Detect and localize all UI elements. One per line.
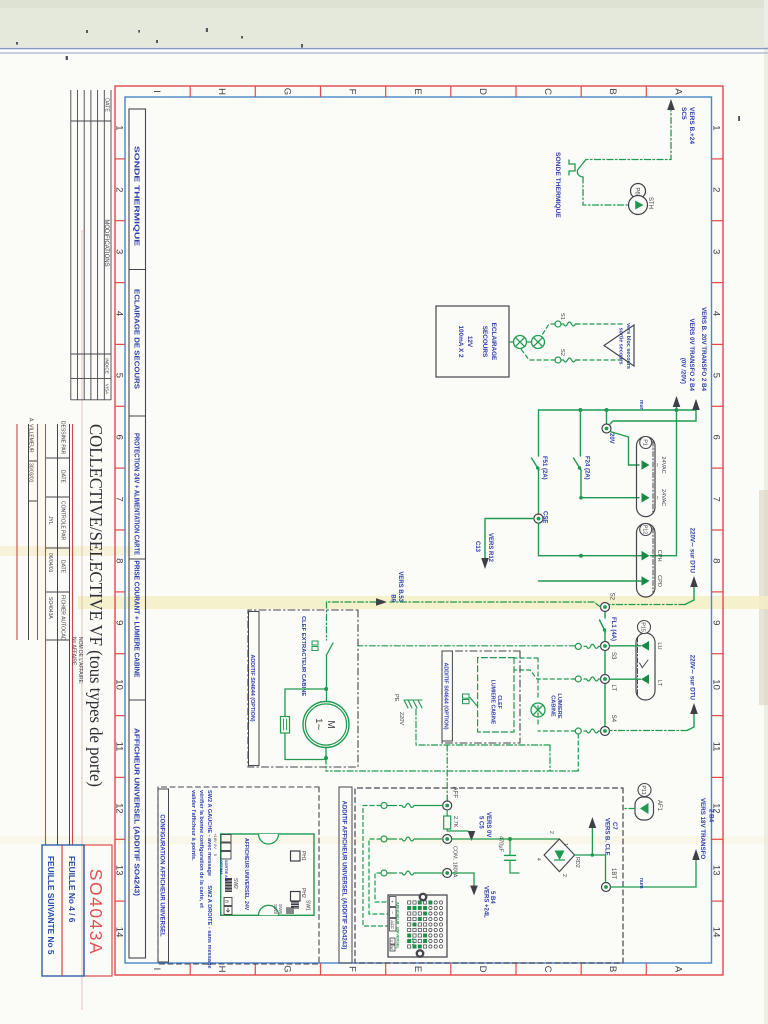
svg-text:OPTIMA: OPTIMA [219,860,223,875]
svg-text:SORTIE AFI: SORTIE AFI [224,860,228,881]
svg-text:∼: ∼ [654,463,660,468]
svg-text:2: 2 [114,187,125,192]
wire 20V tap [606,410,608,424]
svg-text:14: 14 [711,927,722,938]
svg-text:14: 14 [114,927,125,938]
svg-text:13: 13 [114,865,125,876]
svg-text:S2: S2 [559,349,565,356]
svg-text:E: E [412,966,423,972]
svg-text:CLEF: CLEF [496,695,502,709]
svg-text:1: 1 [711,125,722,130]
svg-text:CABINE: CABINE [550,695,556,717]
svg-text:12: 12 [114,803,125,814]
svg-text:11: 11 [114,742,125,752]
svg-text:2.7K: 2.7K [452,816,458,828]
resistor 2.7K [446,810,448,816]
svg-text:VERS B.53: VERS B.53 [397,571,403,602]
sheet number box [42,845,84,976]
terminal LT [601,675,610,684]
svg-text:PH2: PH2 [300,888,306,898]
pin 24VAC 2 [642,493,650,503]
lamp L2 [532,336,545,349]
PE symbol 220V [404,700,422,708]
svg-text:3: 3 [711,249,722,254]
svg-text:24 V: 24 V [411,938,416,946]
run 2 terminal COM [443,835,452,844]
dash S4 circle to PE riser [577,734,579,771]
wire F24 branch [579,410,581,456]
svg-text:PROTECTION 24V + ALIMENTATION: PROTECTION 24V + ALIMENTATION CARTE [132,433,139,555]
svg-text:11: 11 [711,742,722,752]
pin LT [641,674,649,684]
SW6 SW3 [286,908,294,915]
svg-text:470µF: 470µF [498,836,504,853]
terminal row wire [604,612,606,727]
svg-text:AFF: AFF [452,787,458,799]
svg-text:12V: 12V [466,336,473,348]
pin CPH [642,551,650,561]
arrow VERS B.53 [376,598,387,606]
svg-text:VERS 0V TRANSFO 2 B4: VERS 0V TRANSFO 2 B4 [688,318,695,391]
svg-text:COLLECTIVE/SELECTIVE VF (tous: COLLECTIVE/SELECTIVE VF (tous types de p… [86,424,106,787]
wire to motor [326,655,328,701]
svg-text:vérifier la bonne configuratio: vérifier la bonne configuration de la ca… [198,790,204,908]
connector pill P1 [637,437,656,517]
svg-text:SW3: SW3 [273,904,278,914]
arrow VERS B.20V TRANSFO [692,399,700,410]
terminal 1BT [602,883,611,892]
zone letters A-I right strip [151,965,683,973]
svg-text:−: − [389,911,394,914]
svg-text:220V∼ sur DTU: 220V∼ sur DTU [689,655,696,701]
svg-text:ADDITIF S04644 (OPTION): ADDITIF S04644 (OPTION) [249,654,255,721]
long wire to CPH [539,410,677,556]
run 1 terminal AFF [443,801,452,810]
arrow 220V sur DTU [690,576,698,587]
svg-text:24VAC: 24VAC [660,489,666,506]
dash-dot S2 up to 220V DTU [610,604,686,606]
svg-text:10: 10 [711,679,722,690]
wire 220V sur DTU to S4 [687,714,694,731]
sensor circle P6 [631,184,646,199]
svg-text:S4: S4 [610,715,616,723]
svg-text:1: 1 [114,125,125,130]
svg-text:G: G [281,88,292,95]
svg-text:DATE: DATE [60,560,66,574]
svg-text:(0V /20V): (0V /20V) [680,358,687,384]
svg-text:6: 6 [711,435,722,440]
svg-text:A: A [672,966,683,973]
configuration afficheur universel box [158,787,319,964]
riser S4 to 220V DTU (dash-dot) [610,730,688,732]
svg-text:VERS B. 20V TRANSFO 2 B4: VERS B. 20V TRANSFO 2 B4 [700,307,707,391]
wiggle and circle under LT [584,677,601,681]
svg-text:C: C [542,88,553,95]
svg-text:DATE: DATE [103,98,109,112]
svg-text:C7: C7 [611,822,617,830]
svg-text:vers bloc secours: vers bloc secours [625,323,631,369]
svg-text:SW6: SW6 [278,904,283,914]
svg-text:PE: PE [393,694,399,702]
svg-text:B: B [225,900,230,903]
svg-text:C13: C13 [474,541,480,553]
svg-text:E: E [412,88,423,94]
board notches [259,834,279,844]
capacitor 470uF [510,839,519,873]
svg-text:6: 6 [114,435,125,440]
function section strip along bottom inside frame [129,109,146,958]
svg-text:SC5: SC5 [680,107,687,120]
arrow 220V sur DTU 2 [690,703,698,714]
svg-text:24V: 24V [243,901,249,911]
run 2 riser to rectifier [452,838,559,840]
svg-text:No AFFAIRE:: No AFFAIRE: [71,637,77,667]
capacitor C [281,717,290,734]
instruction text [190,790,212,969]
wiggle and circle under S3 [584,644,601,648]
svg-text:VERS 18V TRANSFO: VERS 18V TRANSFO [699,798,706,859]
svg-text:AF1: AF1 [656,800,662,812]
svg-text:AFFICHEUR UNIVERSEL (ADDITIF S: AFFICHEUR UNIVERSEL (ADDITIF SO4243) [132,728,139,896]
svg-text:VERS B.+24: VERS B.+24 [688,107,695,144]
wire F51 / CSE branch [538,410,540,456]
sortie connector boxes [221,835,231,860]
riser S3 to LU [610,645,641,647]
riser diamond to VERS B. CLE [575,819,606,883]
svg-text:5: 5 [711,373,722,378]
svg-text:9: 9 [711,620,722,625]
svg-text:D: D [477,88,488,95]
svg-text:VERS R12: VERS R12 [487,533,493,563]
svg-text:3: 3 [114,249,125,254]
svg-text:LUMIERE CABINE: LUMIERE CABINE [490,680,496,725]
wire VERS B.+24 (dash-dot) [586,105,671,160]
label vers bloc secours [618,323,632,369]
svg-text:RD2: RD2 [574,857,580,868]
thermal contact STH switch [569,160,586,178]
bloc secours box [436,306,509,377]
svg-text:S1: S1 [559,313,565,320]
svg-text:7: 7 [114,496,125,501]
dash-dot wire into box to AFF [446,745,448,796]
svg-text:LUMIERE: LUMIERE [556,693,562,718]
svg-text:num: num [638,878,644,889]
svg-text:W: W [390,946,394,950]
svg-text:SECOURS: SECOURS [481,326,488,358]
fuse wiggle S1 [561,322,578,326]
svg-text:M: M [325,720,336,728]
riser LT to pin LT [610,678,641,680]
svg-text:5 B4: 5 B4 [489,891,495,904]
wire F24 to pin [581,470,639,498]
dashes from lamps to box [509,341,532,343]
svg-text:220V: 220V [398,712,404,725]
svg-text:SONDE THERMIQUE: SONDE THERMIQUE [554,152,561,218]
svg-text:FEUILLE SUIVANTE No 5: FEUILLE SUIVANTE No 5 [46,856,56,955]
wires terminals to triangle [576,324,625,360]
lamp L1 [514,336,545,349]
svg-text:5: 5 [114,373,125,378]
B box and arrow box [224,898,232,906]
svg-text:mur: mur [638,400,644,410]
svg-text:SW2 A GAUCHE - avec message: SW2 A GAUCHE - avec message SW2 A DROITE… [206,790,212,969]
svg-text:10: 10 [114,679,125,690]
svg-text:+: + [389,900,394,903]
zone numbers 1-14 bottom strip [114,125,125,937]
svg-text:VERS 0V: VERS 0V [485,812,491,837]
svg-text:06/04/01: 06/04/01 [47,553,53,573]
fuse wiggle S2 [561,358,578,362]
svg-text:ECLAIRAGE: ECLAIRAGE [490,323,497,361]
svg-text:VERS +24L: VERS +24L [483,886,489,918]
svg-text:H: H [216,88,227,95]
document number cell SO4043A [84,845,112,976]
svg-text:30/03/01: 30/03/01 [28,463,34,483]
wire to arrow 0V transfo [676,398,678,410]
svg-text:4: 4 [535,858,541,861]
svg-text:2: 2 [561,874,567,877]
faint red paper-edge line along bottom margin [81,230,83,1010]
wire to arrow 20V transfo [610,401,696,424]
zone numbers 1-14 top strip [711,125,722,937]
svg-text:ADDITIF S04644 (OPTION): ADDITIF S04644 (OPTION) [443,662,449,729]
sensor circle STH with triangle [629,196,648,215]
svg-text:FICHIER AUTOCAD: FICHIER AUTOCAD [60,595,66,641]
revision table [71,90,111,400]
svg-text:FL1 (4A): FL1 (4A) [610,617,616,641]
svg-text:220V∼ sur DTU: 220V∼ sur DTU [689,528,696,574]
connector P11 / AF1 [638,784,651,797]
svg-text:8: 8 [114,558,125,563]
arrow VERS 0V TRANSFO [673,396,681,407]
pin matrix connector afficheur [388,895,447,957]
svg-text:FEUILLE No 4 / 6: FEUILLE No 4 / 6 [67,856,77,923]
PH2 + SW1 [291,892,301,902]
svg-text:SONDE THERMIQUE: SONDE THERMIQUE [132,146,139,247]
terminal S2 [555,357,561,363]
wire motor right [325,748,327,759]
arrow VERS B. CLE [589,817,597,828]
wire CPD down [539,580,642,582]
svg-text:CPD: CPD [656,575,662,587]
pin CPD [642,576,650,586]
option box additif S04644 [442,651,520,743]
svg-text:S2: S2 [609,593,615,601]
AFI board outline [221,834,314,915]
pin LU [641,641,649,651]
svg-text:LU: LU [656,642,662,649]
svg-text:P15: P15 [640,622,646,632]
svg-text:DESSINE PAR: DESSINE PAR [60,421,66,455]
svg-text:SW1: SW1 [305,900,311,911]
svg-text:P11: P11 [640,785,646,794]
svg-text:LT: LT [656,680,662,687]
svg-text:P12: P12 [641,525,647,535]
svg-text:SO4043A: SO4043A [47,597,53,619]
key contact in box [463,694,470,698]
svg-text:INDICE: INDICE [104,358,109,374]
svg-text:S3: S3 [610,652,616,660]
option box additif extracteur [248,610,358,767]
svg-text:PRISE COURANT + LUMIERE CABINE: PRISE COURANT + LUMIERE CABINE [132,561,139,678]
svg-text:MODIFICATIONS: MODIFICATIONS [103,219,109,266]
inner blue border frame [125,97,712,963]
svg-text:VISA: VISA [104,384,109,395]
aux contacts in P15 [640,660,649,668]
connector pill P12 [637,524,656,598]
svg-text:B: B [607,966,618,972]
svg-text:∼: ∼ [654,495,660,500]
rectifier bridge RD2 [544,839,575,872]
svg-text:100mA X 2: 100mA X 2 [457,325,464,358]
label strip additif afficheur [339,787,352,963]
svg-text:VERS B. CLE: VERS B. CLE [604,818,610,856]
svg-text:A. VILLEMEUR: A. VILLEMEUR [28,418,34,453]
svg-text:5 C5: 5 C5 [478,816,484,829]
svg-text:F24 (2A): F24 (2A) [584,456,590,480]
PH1 [291,851,301,861]
additif afficheur universel dashed box [355,788,623,963]
run 3 riser and arrow VERS +24L [452,873,474,889]
svg-text:24VAC: 24VAC [660,456,666,473]
svg-text:JYL: JYL [47,516,53,525]
svg-text:+18V: +18V [213,833,218,843]
svg-text:CSE: CSE [542,511,548,523]
svg-text:9: 9 [114,620,125,625]
inner box clef lumiere cabine [478,658,514,732]
arrow VERS 0V [468,831,476,841]
svg-text:13: 13 [711,865,722,876]
svg-text:0V: 0V [213,844,218,849]
wire to STH sensor [583,177,629,205]
label VERS B.+24 SC5 [680,107,695,144]
svg-text:G: G [281,965,292,972]
zone letters A-I left strip [151,88,683,96]
svg-text:DATE: DATE [60,470,66,484]
svg-text:B9: B9 [390,594,396,602]
svg-text:F: F [347,966,358,972]
terminal S1 [555,321,561,327]
svg-text:F51 (2A): F51 (2A) [541,456,547,480]
svg-text:SW2: SW2 [232,878,238,889]
fuse switch FL1 [600,620,606,632]
svg-text:4: 4 [711,311,722,316]
svg-text:8: 8 [711,558,722,563]
svg-text:7: 7 [711,496,722,501]
svg-text:I: I [151,90,162,93]
svg-text:sortie secours: sortie secours [618,328,624,365]
svg-text:CPH: CPH [656,550,662,562]
svg-text:2: 2 [711,187,722,192]
fuse switch F24 [574,458,582,470]
outer red border frame [115,86,723,975]
dash PE to riser [326,709,578,771]
svg-text:SO4043A: SO4043A [86,869,106,955]
terminal 20V [602,424,611,433]
svg-text:CLEF EXTRACTEUR CABINE: CLEF EXTRACTEUR CABINE [300,616,306,696]
lower title rows: dessinateur block [29,424,70,845]
svg-text:PH1: PH1 [300,851,306,861]
svg-text:4: 4 [114,311,125,316]
arrow to B.+24 SC5 [667,99,675,110]
SW2 [225,878,232,892]
dash-dot wire from S2 to motor [390,602,601,607]
clef extracteur key contact [312,641,318,645]
svg-text:AFFICHEUR UNIVERSEL: AFFICHEUR UNIVERSEL [243,838,249,900]
faint fold line (pale yellow vertical band in landscape) [78,596,768,609]
svg-text:H: H [216,966,227,973]
pin 24VAC 1 [642,460,650,470]
svg-text:2: 2 [548,831,554,834]
dash-dot AF1 down to box [623,808,635,810]
zone column ticks (red) top and bottom [115,159,723,901]
svg-text:P1: P1 [641,439,647,446]
wire 20V to pin 24VAC [610,432,639,466]
capacitor loop under motor [285,689,326,760]
connector pill P15 [636,633,655,700]
svg-text:D: D [477,966,488,973]
svg-text:P6: P6 [634,187,640,195]
wire VERS R12 C13 [485,519,534,563]
main bus wire [539,409,697,411]
run 3 terminal [443,869,452,878]
wire 220V sur DTU to S2 [685,587,694,605]
svg-text:ADDITIF AFFICHEUR UNIVERSEL (A: ADDITIF AFFICHEUR UNIVERSEL (ADDITIF SO4… [341,801,347,950]
wire 1BT to VERS 18V TRANSFO [611,852,697,887]
svg-text:1: 1 [562,843,568,846]
zone row ticks (red) left and right [190,86,646,975]
fuse switch F51 [532,458,540,470]
terminal S3 [601,642,610,651]
terminal S2b [601,603,610,612]
svg-text:B: B [607,88,618,94]
svg-text:STH: STH [647,197,653,209]
junction node [579,554,583,558]
svg-text:C: C [542,966,553,973]
terminal CSE [534,514,543,523]
connector triangle vers bloc secours [604,325,634,366]
svg-text:LT: LT [610,685,616,692]
svg-text:2 B4: 2 B4 [708,809,715,823]
lamp lumiere cabine [531,703,545,717]
junction node [675,408,679,412]
svg-text:A: A [672,88,683,95]
svg-text:1∼: 1∼ [314,718,324,731]
motor M 1~ [303,702,349,748]
svg-text:NOM DE L'AFFAIRE:: NOM DE L'AFFAIRE: [77,637,83,684]
svg-text:ECLAIRAGE DE SECOURS: ECLAIRAGE DE SECOURS [132,289,139,389]
dashes lamps to terminals [521,324,555,360]
svg-text:1BT: 1BT [610,868,616,879]
svg-text:20V: 20V [608,433,614,444]
terminal S4 [601,727,610,736]
svg-text:CONTROLE PAR: CONTROLE PAR [60,501,66,540]
svg-text:I: I [151,968,162,971]
wiggle and circle under S4 [584,729,601,733]
svg-text:CONFIGURATION AFFICHEUR UNIVER: CONFIGURATION AFFICHEUR UNIVERSEL [158,814,164,937]
svg-text:valider l'afficheur à points.: valider l'afficheur à points. [190,790,196,861]
arrow VERS R12 [481,558,489,569]
svg-text:F: F [347,89,358,95]
